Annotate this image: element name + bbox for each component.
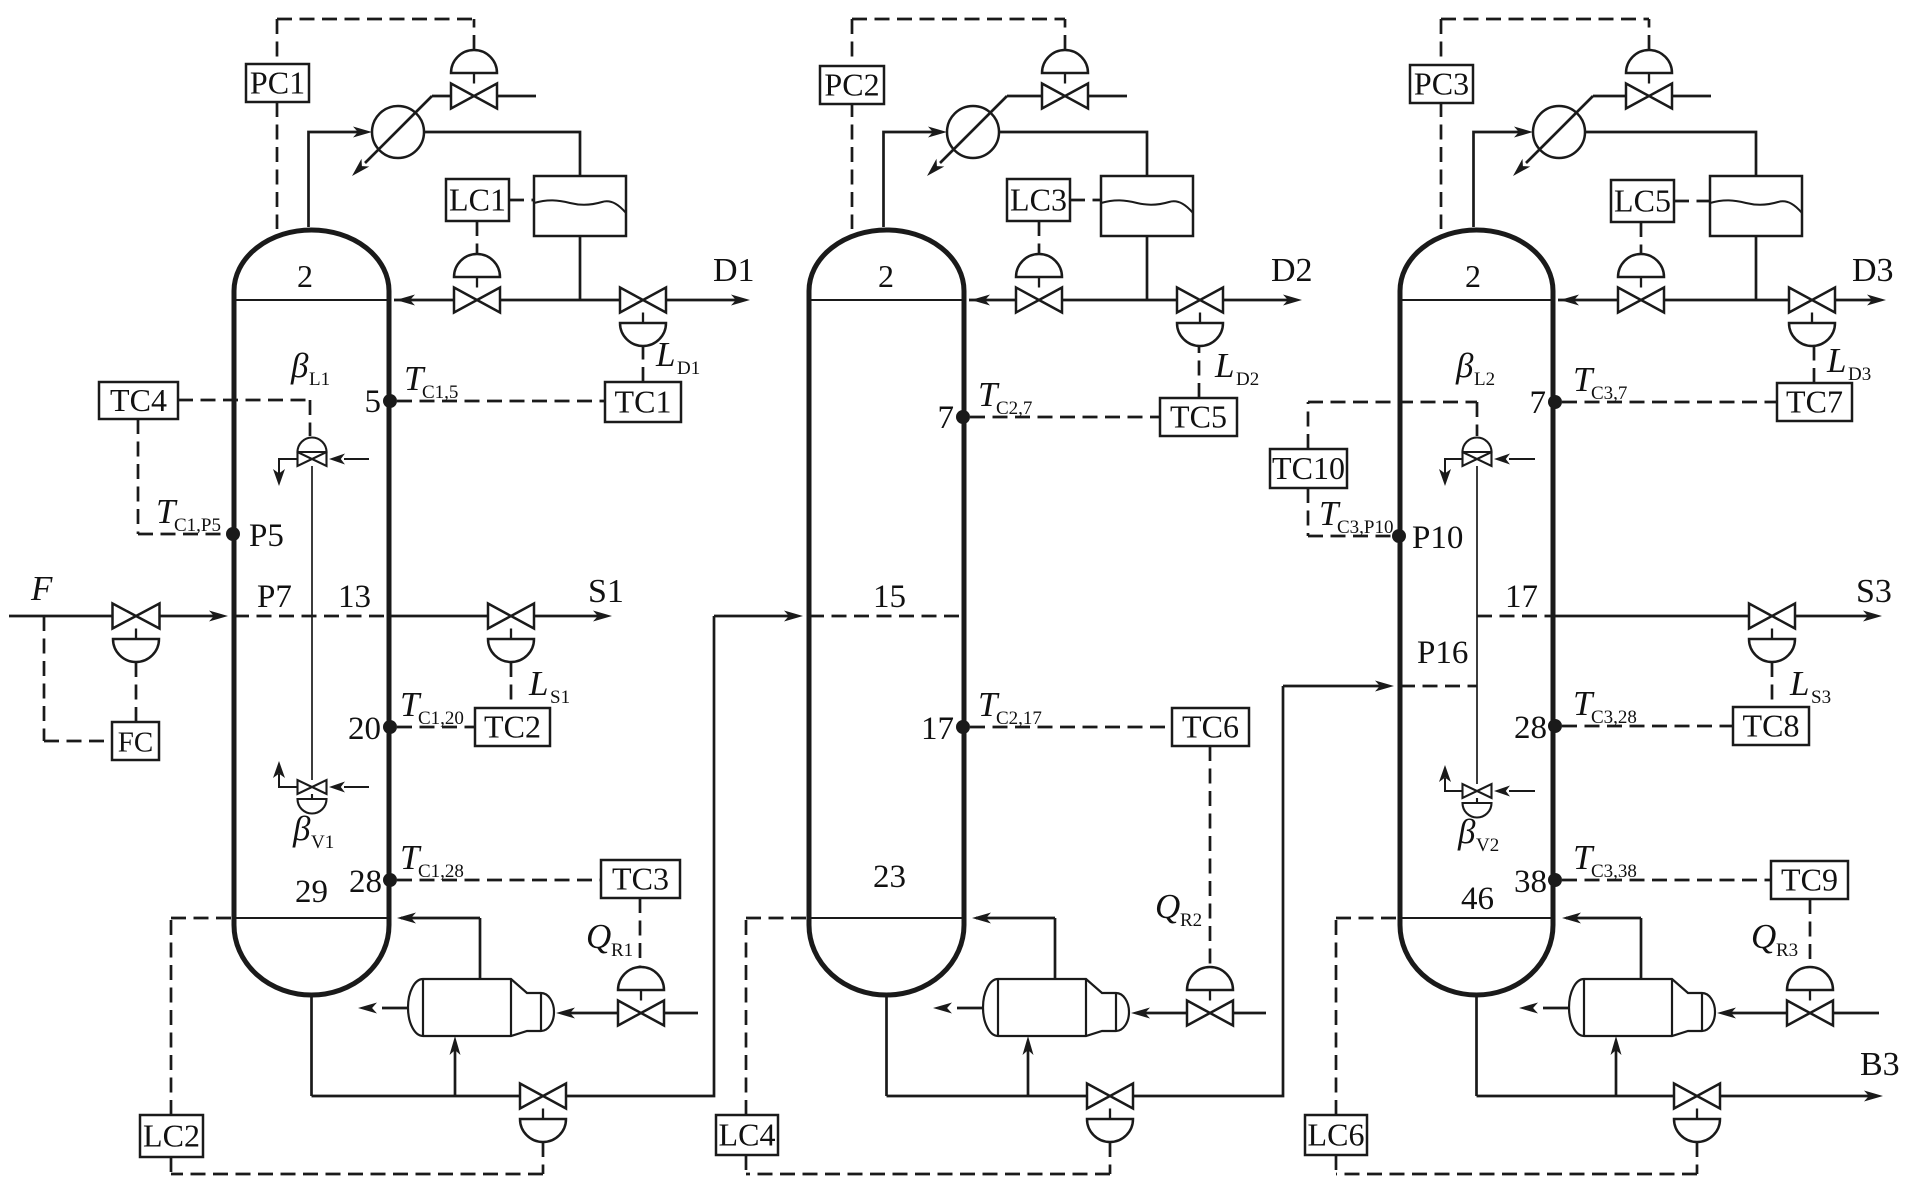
- svg-text:17: 17: [921, 711, 954, 747]
- svg-text:R3: R3: [1776, 940, 1798, 961]
- svg-text:C1,28: C1,28: [418, 861, 464, 882]
- svg-text:TC1: TC1: [615, 384, 672, 420]
- svg-text:L: L: [1826, 341, 1846, 380]
- svg-text:TC2: TC2: [484, 709, 541, 745]
- svg-text:LC2: LC2: [143, 1118, 200, 1154]
- svg-text:C3,38: C3,38: [1591, 861, 1637, 882]
- svg-text:L: L: [1789, 664, 1809, 703]
- svg-text:2: 2: [878, 258, 894, 294]
- svg-text:5: 5: [365, 384, 382, 420]
- svg-text:LC6: LC6: [1308, 1117, 1365, 1153]
- svg-text:R1: R1: [611, 940, 633, 961]
- svg-text:7: 7: [1530, 385, 1547, 421]
- svg-text:20: 20: [348, 711, 381, 747]
- svg-text:TC10: TC10: [1272, 450, 1345, 486]
- svg-text:β: β: [1457, 812, 1476, 851]
- svg-text:TC9: TC9: [1781, 862, 1838, 898]
- svg-text:PC1: PC1: [250, 65, 305, 101]
- svg-text:β: β: [1455, 346, 1474, 385]
- svg-text:D2: D2: [1271, 252, 1313, 289]
- svg-text:38: 38: [1514, 864, 1547, 900]
- svg-text:TC8: TC8: [1743, 708, 1800, 744]
- svg-text:P5: P5: [249, 518, 284, 554]
- svg-text:7: 7: [938, 400, 955, 436]
- svg-text:TC3: TC3: [612, 861, 669, 897]
- svg-text:L2: L2: [1474, 369, 1495, 390]
- svg-text:β: β: [292, 809, 311, 848]
- svg-text:D3: D3: [1848, 364, 1871, 385]
- svg-text:L: L: [655, 335, 675, 374]
- svg-text:TC7: TC7: [1786, 384, 1843, 420]
- svg-text:P7: P7: [257, 579, 292, 615]
- svg-text:R2: R2: [1180, 910, 1202, 931]
- svg-text:B3: B3: [1860, 1046, 1900, 1083]
- svg-text:S3: S3: [1856, 573, 1892, 610]
- svg-text:Q: Q: [586, 917, 611, 956]
- svg-text:Q: Q: [1751, 917, 1776, 956]
- svg-text:17: 17: [1505, 579, 1538, 615]
- svg-text:V1: V1: [311, 832, 334, 853]
- svg-text:PC3: PC3: [1414, 66, 1469, 102]
- svg-text:2: 2: [1465, 258, 1481, 294]
- svg-text:D1: D1: [713, 252, 755, 289]
- svg-text:13: 13: [338, 579, 371, 615]
- svg-text:LC3: LC3: [1010, 182, 1067, 218]
- svg-text:C1,P5: C1,P5: [174, 515, 221, 536]
- svg-text:L1: L1: [309, 369, 330, 390]
- svg-text:PC2: PC2: [824, 67, 879, 103]
- svg-text:TC4: TC4: [110, 382, 167, 418]
- svg-text:L: L: [528, 664, 548, 703]
- svg-text:D3: D3: [1852, 252, 1894, 289]
- svg-text:C1,20: C1,20: [418, 708, 464, 729]
- svg-text:TC6: TC6: [1182, 709, 1239, 745]
- svg-text:C3,7: C3,7: [1591, 383, 1627, 404]
- svg-text:2: 2: [297, 258, 313, 294]
- svg-text:C1,5: C1,5: [422, 382, 458, 403]
- svg-text:D2: D2: [1236, 369, 1259, 390]
- svg-text:TC5: TC5: [1170, 399, 1227, 435]
- svg-text:Q: Q: [1155, 887, 1180, 926]
- svg-text:V2: V2: [1476, 835, 1499, 856]
- svg-text:29: 29: [295, 874, 328, 910]
- svg-text:β: β: [290, 346, 309, 385]
- svg-text:28: 28: [349, 864, 382, 900]
- svg-text:C3,P10: C3,P10: [1337, 517, 1394, 538]
- svg-text:P10: P10: [1412, 520, 1463, 556]
- svg-text:F: F: [30, 569, 53, 608]
- svg-text:C2,7: C2,7: [996, 398, 1032, 419]
- svg-text:46: 46: [1461, 881, 1494, 917]
- svg-text:L: L: [1214, 346, 1234, 385]
- svg-text:28: 28: [1514, 710, 1547, 746]
- svg-text:S1: S1: [550, 687, 570, 708]
- svg-text:LC4: LC4: [719, 1117, 776, 1153]
- svg-text:S3: S3: [1811, 687, 1831, 708]
- svg-text:23: 23: [873, 859, 906, 895]
- svg-text:LC5: LC5: [1614, 183, 1671, 219]
- svg-text:D1: D1: [677, 358, 700, 379]
- svg-text:FC: FC: [118, 727, 153, 759]
- svg-text:S1: S1: [588, 573, 624, 610]
- svg-text:C2,17: C2,17: [996, 708, 1042, 729]
- svg-text:P16: P16: [1417, 635, 1468, 671]
- svg-text:LC1: LC1: [449, 182, 506, 218]
- svg-text:C3,28: C3,28: [1591, 707, 1637, 728]
- svg-text:15: 15: [873, 579, 906, 615]
